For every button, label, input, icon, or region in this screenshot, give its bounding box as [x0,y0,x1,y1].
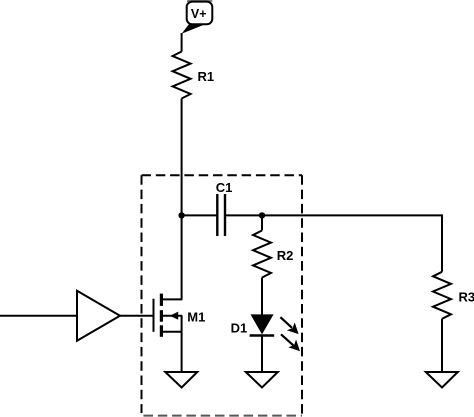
LED D1 light arrow 1 [280,317,298,334]
buffer amplifier [77,291,120,341]
LED D1 light arrow 2 [281,334,300,351]
wire R3 to ground [441,319,443,372]
wire buffer output to M1 gate [120,315,154,317]
power V+ [182,0,213,34]
ground (M1) [165,372,197,388]
ground (R3) [426,372,458,388]
wire input to buffer [0,315,77,317]
svg-text:M1: M1 [187,309,205,324]
svg-text:R2: R2 [277,248,294,263]
wire node A to C1 [182,214,217,216]
resistor R3 [433,272,451,319]
node A [178,212,184,218]
wire D1 to ground [261,336,263,373]
svg-text:C1: C1 [216,180,233,195]
LED D1 [250,315,275,336]
wire node A to M1 drain [181,215,183,299]
capacitor C1 [217,194,225,236]
enclosure dashed box [142,175,303,417]
wire R2 to D1 [261,278,263,316]
wire C1 to node B [225,214,262,216]
wire node B to R2 [261,215,263,230]
wire R1 to node A [181,99,183,216]
node B [259,212,265,218]
svg-text:V+: V+ [191,7,207,21]
transistor M1 [154,294,183,337]
wire V+ to R1 [181,33,183,52]
wire M1 source to ground [181,332,183,372]
svg-text:R3: R3 [459,289,474,304]
wire node B to R3 [262,215,442,271]
ground (D1) [246,372,278,388]
resistor R1 [173,52,191,99]
svg-text:D1: D1 [231,320,248,335]
svg-text:R1: R1 [198,69,215,84]
resistor R2 [253,231,271,278]
